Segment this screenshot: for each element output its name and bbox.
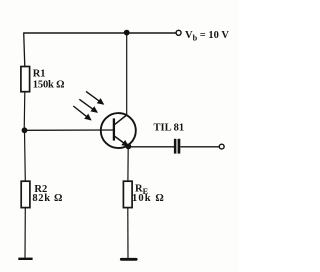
svg-text:82k Ω: 82k Ω (32, 193, 62, 204)
svg-text:TIL 81: TIL 81 (154, 123, 185, 134)
wire R1 to node A (23, 92, 26, 131)
transistor collector stroke (114, 115, 127, 125)
ground (middle) (121, 258, 136, 261)
wire RE to ground (127, 208, 129, 259)
wire collector drop (126, 33, 128, 115)
wire node A to R2 (24, 131, 27, 182)
svg-text:10k Ω: 10k Ω (132, 193, 164, 204)
svg-text:Vb = 10 V: Vb = 10 V (185, 30, 229, 43)
wire base (24, 129, 114, 131)
wire emitter to RE (127, 147, 129, 182)
terminal Vb (176, 30, 181, 35)
node A junction dot (22, 127, 28, 133)
capacitor C1 plate left (174, 139, 177, 154)
transistor Q1 TIL 81 circle (101, 113, 136, 148)
transistor base bar (113, 118, 115, 140)
svg-text:R1: R1 (33, 69, 46, 80)
wire R2 to ground (24, 208, 26, 259)
terminal output (219, 144, 224, 149)
wire top rail (24, 32, 177, 34)
svg-text:150k Ω: 150k Ω (33, 80, 65, 91)
resistor R1 (21, 67, 30, 92)
wire emitter output (128, 146, 174, 148)
wire left rail upper (24, 33, 25, 67)
node top junction dot (124, 30, 130, 36)
light arrow 1 (86, 91, 103, 104)
node emitter junction dot (125, 144, 131, 150)
light arrow 3 (73, 106, 90, 120)
resistor R2 (21, 181, 30, 207)
capacitor C1 plate right (178, 139, 181, 154)
transistor emitter stroke with arrow (114, 136, 128, 146)
resistor RE (123, 181, 132, 207)
wire capacitor to output (180, 146, 219, 148)
ground (left) (18, 258, 32, 260)
light arrow 2 (79, 99, 97, 112)
